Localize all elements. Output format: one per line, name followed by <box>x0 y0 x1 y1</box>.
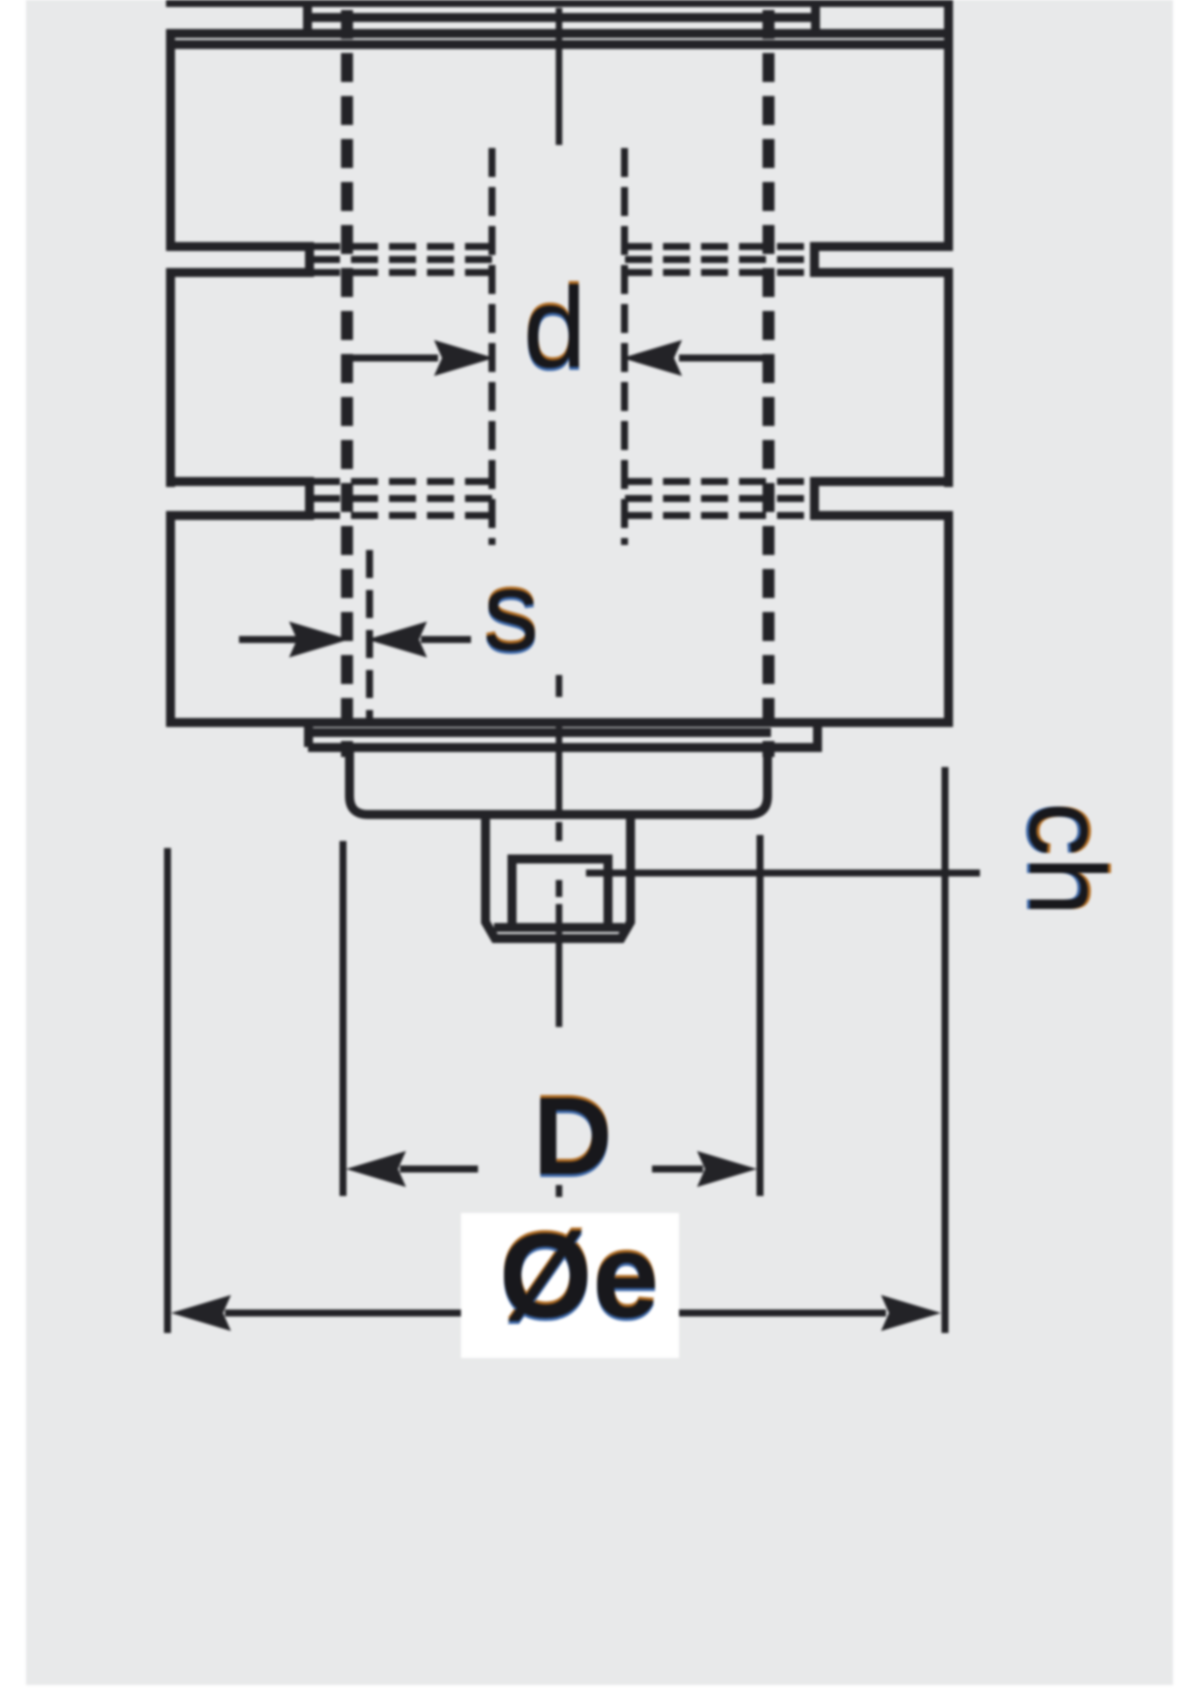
center line below stud <box>556 904 563 1027</box>
body right edge segment A <box>944 0 953 251</box>
dimension D left extension line <box>340 841 347 1196</box>
center line dash above cap <box>556 675 563 697</box>
body right edge segment C <box>944 511 953 727</box>
svg-text:d: d <box>523 265 586 392</box>
slit 2 left hidden row 1 <box>313 478 492 485</box>
center line dash in stud 2 <box>556 880 563 897</box>
dimension d right arrowhead <box>622 340 682 376</box>
stud inner square bottom line <box>494 923 624 932</box>
dimension s right arrowhead <box>367 622 427 658</box>
slit 2 right: closed end step <box>810 477 819 520</box>
slit 2 right hidden row 1 <box>625 478 808 485</box>
center line dash in stud <box>556 822 563 841</box>
slit 1 left hidden row 3 <box>313 269 492 276</box>
dimension Oe right extension line <box>942 767 949 1333</box>
slit 1 right: section B top edge <box>810 268 953 277</box>
threaded stud outline <box>486 817 631 939</box>
body right edge segment B <box>944 268 953 487</box>
white label box <box>461 1213 679 1358</box>
dimension D left arrow line <box>400 1166 478 1173</box>
bottom flange line 2 <box>308 743 822 752</box>
top band step V2 <box>811 4 820 38</box>
hidden thread line d right (thin dashed) <box>621 148 628 545</box>
svg-text:D: D <box>533 1075 612 1198</box>
dimension Oe left arrow line <box>225 1310 461 1317</box>
dimension s right arrow line <box>421 636 471 643</box>
hidden bore line right (thick dashed) <box>763 10 775 757</box>
slit 2 right: section C top edge <box>810 511 953 520</box>
slit 2 right hidden row 2 <box>625 495 808 502</box>
slit 2 left hidden row 2 <box>313 495 492 502</box>
slit 1 right: section A bottom edge <box>810 242 953 251</box>
slit 1 right hidden row 1 <box>625 243 808 250</box>
slit 1 right: closed end step <box>810 242 819 277</box>
center line dash above Oe label <box>556 1185 563 1197</box>
hidden thread line d left (thin dashed) <box>489 148 496 545</box>
dimension D right extension line <box>757 835 764 1196</box>
slit 1 right hidden row 2 <box>625 256 808 263</box>
body left edge segment B <box>166 268 175 487</box>
dimension d left arrow line <box>352 355 438 362</box>
top band line T1 (upper cap bottom edge) <box>166 0 949 7</box>
center line top segment <box>556 8 563 145</box>
slit 1 left hidden row 1 <box>313 243 492 250</box>
bottom flange right stub <box>813 718 822 752</box>
slit 1 left hidden row 2 <box>313 256 492 263</box>
dimension D right arrowhead <box>697 1151 757 1187</box>
hidden slot line s (thin dashed) <box>366 550 373 723</box>
svg-text:ch: ch <box>1007 802 1128 916</box>
center line through cap <box>556 718 563 815</box>
slit 1 left: section A bottom edge <box>166 242 309 251</box>
slit 1 left: section B top edge <box>166 268 309 277</box>
body bottom edge <box>166 718 953 727</box>
bottom flange line 1 <box>308 728 771 737</box>
dimension label ch (rotated) <box>1004 802 1131 916</box>
top band line T3 (body top edge) <box>166 40 953 49</box>
dimension s left arrowhead <box>289 622 349 658</box>
slit 2 left hidden row 3 <box>313 512 492 519</box>
dimension Oe left arrowhead <box>171 1295 231 1331</box>
dimension Oe left extension line <box>164 848 171 1333</box>
slit 2 left: closed end step <box>305 477 314 520</box>
slit 2 right hidden row 3 <box>625 512 808 519</box>
body left edge segment A <box>166 29 175 251</box>
dimension s left arrow line <box>239 636 299 643</box>
cap (rounded nut body) <box>350 748 768 815</box>
chamfer leader line ch <box>586 870 980 877</box>
slit 1 left: closed end step <box>305 242 314 277</box>
dimension D left arrowhead <box>346 1151 406 1187</box>
body left edge segment C <box>166 511 175 727</box>
bottom flange left step <box>304 718 313 747</box>
slit 2 left: section B bottom edge <box>166 477 309 486</box>
dimension Oe right arrow line <box>679 1310 886 1317</box>
dimension d right arrow line <box>679 355 766 362</box>
hidden bore line left (thick dashed) <box>341 10 353 757</box>
stud inner square (hex socket) <box>512 859 608 929</box>
dimension D right arrow line <box>652 1166 703 1173</box>
svg-text:Øe: Øe <box>499 1209 659 1343</box>
top band line T2 (upper flange upper line) <box>166 29 949 38</box>
dimension Oe right arrowhead <box>881 1295 941 1331</box>
slit 1 right hidden row 3 <box>625 269 808 276</box>
slit 2 right: section B bottom edge <box>810 477 953 486</box>
slit 2 left: section C top edge <box>166 511 309 520</box>
svg-text:s: s <box>483 549 539 674</box>
top band step V1 <box>303 0 312 38</box>
top band line T1b (upper flange lower line) <box>307 13 820 22</box>
dimension d left arrowhead <box>434 340 494 376</box>
